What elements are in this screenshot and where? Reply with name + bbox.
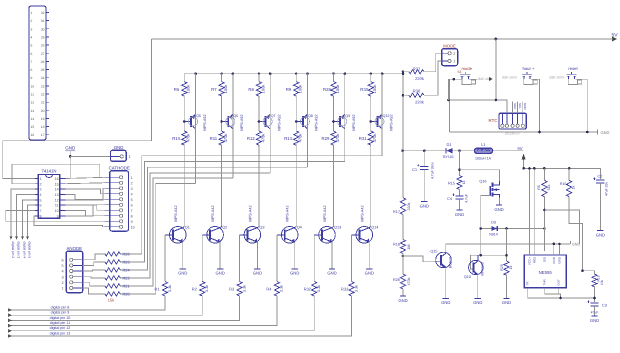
svg-text:100k: 100k <box>372 85 377 94</box>
svg-text:GND: GND <box>601 130 610 135</box>
wire 555 bottom stubs <box>545 288 561 298</box>
resistor R25 <box>506 229 508 262</box>
pin 6 J1 <box>46 52 49 54</box>
svg-text:R4: R4 <box>266 287 272 292</box>
svg-text:BY101: BY101 <box>443 155 454 159</box>
svg-text:R29: R29 <box>322 136 330 141</box>
wire base col2 <box>201 235 203 282</box>
node CATHODE pin 3 <box>105 187 120 189</box>
pin 9 74141 <box>60 215 66 217</box>
ground symbol Q15 <box>443 297 449 299</box>
node RTC pin 5 <box>521 124 524 127</box>
wire base col5 <box>313 235 315 282</box>
svg-text:24: 24 <box>41 76 45 80</box>
svg-text:23: 23 <box>41 84 45 88</box>
resistor R19 10k <box>583 271 595 274</box>
wire base resistor to bus line 1 <box>11 296 165 310</box>
svg-text:12: 12 <box>31 101 35 105</box>
ground symbol <box>366 268 372 270</box>
svg-text:Q4: Q4 <box>297 226 302 230</box>
svg-text:digital pin 12: digital pin 12 <box>50 326 71 330</box>
wire base chain col6 <box>370 96 372 131</box>
svg-text:MPS-A42: MPS-A42 <box>174 205 178 221</box>
wire R5 route to 555 <box>543 197 545 251</box>
resistor R29 470k <box>331 131 336 145</box>
svg-text:2: 2 <box>453 52 455 56</box>
svg-text:100k: 100k <box>335 85 340 94</box>
resistor R23 15k <box>105 260 120 264</box>
svg-text:Q14: Q14 <box>371 226 378 230</box>
svg-text:SDA: SDA <box>513 103 517 109</box>
svg-text:R16: R16 <box>560 182 567 186</box>
svg-text:4.7uF 350v: 4.7uF 350v <box>431 162 435 179</box>
svg-text:SCL: SCL <box>518 103 522 109</box>
node rail junction col4 <box>295 73 297 75</box>
svg-text:B3F-10XX: B3F-10XX <box>550 76 566 80</box>
wire Q15 emitter to gnd <box>445 267 447 298</box>
node digital pin 13 bus terminal <box>8 334 12 337</box>
wire 74141 p12 to cathode3 <box>65 188 104 200</box>
svg-text:4.7uF: 4.7uF <box>464 194 468 203</box>
pin 14 J1 <box>46 118 49 120</box>
node digital pin 8 bus terminal <box>8 308 12 311</box>
wire PNP emitter-collector column col1 <box>195 74 197 184</box>
svg-text:4: 4 <box>31 36 33 40</box>
svg-text:R23: R23 <box>123 259 130 264</box>
svg-text:R18: R18 <box>393 242 400 246</box>
svg-text:5: 5 <box>31 44 33 48</box>
wire R16 route <box>569 197 582 271</box>
wire MODE pin2 to R27 <box>424 53 442 71</box>
wire anode pin 3 to resistor <box>83 277 105 278</box>
svg-text:100k: 100k <box>260 85 265 94</box>
wire base resistor to bus line 5 <box>11 296 314 331</box>
transistor Q2 MPS-A42 <box>207 227 224 244</box>
svg-text:220k: 220k <box>415 99 424 104</box>
svg-text:32: 32 <box>41 11 45 15</box>
svg-text:R24: R24 <box>123 267 131 272</box>
svg-text:100k: 100k <box>298 85 303 94</box>
svg-text:GND: GND <box>420 203 429 208</box>
ground symbol C1 <box>421 201 427 203</box>
switch S3 reset <box>568 76 574 79</box>
svg-text:GND: GND <box>65 146 76 151</box>
pin 3 J1 <box>46 28 49 30</box>
diode D1 BY101 <box>445 148 447 153</box>
wire base chain col5 <box>333 96 335 131</box>
node RTC pin 1 <box>501 124 504 127</box>
resistor R4 3.3k <box>274 282 279 297</box>
svg-text:2: 2 <box>62 281 64 285</box>
svg-text:CON: CON <box>552 257 556 264</box>
svg-text:6: 6 <box>131 203 133 207</box>
wire 74141 p10 to cathode8 <box>65 210 104 215</box>
pin 15 J1 <box>46 126 49 128</box>
svg-text:MPS-A92: MPS-A92 <box>203 114 207 130</box>
wire anode line col1 <box>120 183 195 294</box>
resistor R33 3.3k <box>349 282 354 297</box>
resistor R8 100k <box>258 74 260 82</box>
svg-text:470k: 470k <box>260 134 265 143</box>
pin 9 J1 <box>46 77 49 79</box>
svg-text:Q10: Q10 <box>464 275 471 279</box>
svg-text:R5: R5 <box>537 185 541 190</box>
svg-text:R9: R9 <box>286 87 292 92</box>
wire base chain col4 <box>295 96 297 131</box>
svg-text:8: 8 <box>31 68 33 72</box>
svg-text:3: 3 <box>131 187 133 191</box>
resistor R9 100k <box>295 74 297 82</box>
svg-text:R36: R36 <box>413 89 421 94</box>
connector MODE <box>442 49 458 66</box>
svg-text:MPS-A42: MPS-A42 <box>360 205 364 221</box>
wire emitter to gnd col2 <box>219 242 221 268</box>
node ANODE pin 5 <box>70 264 73 267</box>
wire RTC pin stubs <box>512 102 514 114</box>
wire S3 right drop <box>576 79 588 132</box>
node MODE pin 1 <box>442 60 448 62</box>
ground symbol R25 <box>503 297 509 299</box>
transistor Q9 MPS-A92 <box>332 120 335 123</box>
wire anode line col3 <box>120 173 270 278</box>
svg-text:GND: GND <box>215 271 224 276</box>
pin 5 J1 <box>46 44 49 46</box>
svg-text:NE555: NE555 <box>539 270 553 275</box>
node CATHODE pin 1 <box>105 176 120 178</box>
svg-text:ANODE: ANODE <box>66 246 82 251</box>
wire digital pin 4 stub <box>23 200 36 239</box>
ground symbol C3 <box>591 315 597 317</box>
wire digital pin 5 stub <box>28 205 36 238</box>
wire 470k to Q5 collector <box>333 145 335 226</box>
svg-text:GND: GND <box>523 103 527 111</box>
svg-text:15: 15 <box>55 182 59 186</box>
svg-text:R3: R3 <box>229 287 235 292</box>
svg-text:3.3k: 3.3k <box>280 285 284 292</box>
svg-text:GND: GND <box>502 300 511 305</box>
svg-text:10: 10 <box>55 209 59 213</box>
wire base chain col2 <box>221 96 223 131</box>
switch S2 hour <box>524 76 530 79</box>
resistor R6 100k <box>183 74 185 82</box>
svg-text:C3: C3 <box>602 304 607 308</box>
svg-text:26: 26 <box>41 60 45 64</box>
svg-text:Q16: Q16 <box>479 180 486 184</box>
svg-text:9: 9 <box>57 215 59 219</box>
wire 470k to Q2 collector <box>221 145 223 226</box>
svg-text:470k: 470k <box>223 134 228 143</box>
svg-text:1k: 1k <box>572 185 576 189</box>
node RTC pin 2 <box>505 124 508 127</box>
svg-text:digital pin 2: digital pin 2 <box>11 242 15 259</box>
node rail junction col1 <box>194 72 197 75</box>
ground symbol <box>254 268 260 270</box>
svg-text:R20: R20 <box>123 291 131 296</box>
wire anode line col5 <box>120 162 345 262</box>
wire 74141 p11 to cathode7 <box>65 205 104 210</box>
pin 8 74141 <box>35 215 38 217</box>
svg-text:8: 8 <box>40 215 42 219</box>
svg-text:R15: R15 <box>448 182 455 186</box>
resistor R26 15k <box>105 252 120 256</box>
svg-text:MPS-A42: MPS-A42 <box>248 205 252 221</box>
svg-text:1: 1 <box>453 60 455 64</box>
svg-text:14: 14 <box>55 188 59 192</box>
wire PNP emitter-collector column col6 <box>381 74 383 156</box>
ground symbol <box>292 268 298 270</box>
node digital pin 9 bus terminal <box>8 314 12 317</box>
svg-text:5: 5 <box>40 199 42 203</box>
svg-text:Q8: Q8 <box>308 114 313 118</box>
svg-text:10k: 10k <box>600 279 604 285</box>
svg-text:BC547: BC547 <box>449 257 453 268</box>
ground symbol C4 <box>456 209 462 211</box>
svg-text:Q2: Q2 <box>222 226 227 230</box>
svg-text:R7: R7 <box>211 87 217 92</box>
svg-text:MPS-A92: MPS-A92 <box>277 114 281 130</box>
svg-text:25: 25 <box>41 68 45 72</box>
svg-text:3: 3 <box>31 27 33 31</box>
svg-text:27: 27 <box>41 52 45 56</box>
transistor Q15 BC547 <box>436 252 452 268</box>
wire 74141 pin8 under-route to cathode 10 <box>34 216 105 227</box>
svg-text:3.3k: 3.3k <box>317 285 321 292</box>
wire 470k to Q6 collector <box>370 145 372 226</box>
wire anode pin 4 to resistor <box>83 270 105 271</box>
node CATHODE pin 6 <box>105 204 120 206</box>
svg-text:13: 13 <box>31 109 35 113</box>
svg-text:4: 4 <box>40 193 42 197</box>
svg-text:MPS-A92: MPS-A92 <box>315 114 319 130</box>
node GND bracket label <box>570 241 572 244</box>
svg-text:R32: R32 <box>304 287 312 292</box>
wire HV divider chain <box>402 151 404 198</box>
svg-text:R31: R31 <box>359 136 367 141</box>
wire 74141 p14 to cathode4 <box>65 189 104 194</box>
wire S2 right drop <box>531 79 539 132</box>
svg-text:220k: 220k <box>415 76 424 81</box>
resistor R28 100k <box>333 74 335 82</box>
node digital pin 10 bus terminal <box>8 319 12 322</box>
svg-text:GND: GND <box>596 232 605 237</box>
svg-text:MPS-A42: MPS-A42 <box>211 205 215 221</box>
node rail junction col6 <box>370 73 372 75</box>
wire digital pin 2 stub <box>11 189 35 239</box>
svg-text:MPS-A92: MPS-A92 <box>352 114 356 130</box>
svg-text:16: 16 <box>55 177 59 181</box>
wire base resistor to bus line 6 <box>11 296 352 336</box>
svg-text:47uF 25v: 47uF 25v <box>605 182 609 196</box>
svg-text:Q7: Q7 <box>271 114 276 118</box>
resistor R31 470k <box>368 131 373 145</box>
capacitor C4 <box>459 190 461 196</box>
resistor R21 15k <box>105 284 120 288</box>
wire 470k to Q1 collector <box>183 145 185 226</box>
svg-text:R11: R11 <box>210 136 218 141</box>
svg-text:hour +: hour + <box>523 66 536 71</box>
svg-text:2: 2 <box>131 181 133 185</box>
svg-text:2: 2 <box>40 182 42 186</box>
node CATHODE pin 8 <box>105 215 120 217</box>
pin 14 74141 <box>60 188 66 190</box>
svg-text:MPS-A42: MPS-A42 <box>286 205 290 221</box>
node MODE pin 2 <box>442 52 448 54</box>
capacitor C3 47uF <box>590 302 598 304</box>
wire emitter to gnd col4 <box>294 242 296 268</box>
ground symbol button rail <box>597 130 599 135</box>
resistor R18 1M <box>400 240 405 254</box>
svg-text:GND: GND <box>114 145 124 150</box>
svg-text:100k: 100k <box>186 85 191 94</box>
transistor Q6 MPS-A92 <box>220 120 223 123</box>
transistor Q16 MOSFET <box>492 183 494 197</box>
svg-text:17: 17 <box>41 133 45 137</box>
wire HV output line <box>403 150 524 152</box>
svg-text:R6: R6 <box>174 87 180 92</box>
svg-text:GND: GND <box>398 298 407 303</box>
svg-text:10: 10 <box>31 84 35 88</box>
svg-text:R12: R12 <box>247 136 255 141</box>
pin 4 74141 <box>35 193 38 195</box>
pin 16 74141 <box>60 178 66 180</box>
svg-text:R33: R33 <box>341 287 349 292</box>
svg-text:C2: C2 <box>598 175 603 179</box>
pin 6 74141 <box>35 204 38 206</box>
pin 1 J1 <box>46 12 49 14</box>
transistor Q13 MPS-A42 <box>319 227 336 244</box>
svg-text:3.3k: 3.3k <box>242 285 246 292</box>
svg-text:D3: D3 <box>491 221 496 225</box>
wire base resistor to bus line 4 <box>11 296 277 326</box>
svg-text:N914: N914 <box>489 233 498 237</box>
wire anode pin 2 to resistor <box>83 282 105 286</box>
wire S1 left <box>449 78 462 80</box>
resistor R12 470k <box>256 131 261 145</box>
pin 16 J1 <box>46 134 49 136</box>
svg-text:R26: R26 <box>123 251 130 256</box>
resistor R5 <box>543 167 546 170</box>
svg-text:10: 10 <box>131 225 135 229</box>
svg-text:DS1307Z+: DS1307Z+ <box>505 132 520 136</box>
wire anode line col6 <box>120 156 382 254</box>
svg-text:5: 5 <box>62 264 64 268</box>
svg-text:31: 31 <box>41 19 45 23</box>
svg-text:C4: C4 <box>447 197 452 201</box>
node ANODE pin 1 <box>70 286 73 289</box>
wire 74141 p15 to cathode2 <box>65 182 104 185</box>
svg-text:1: 1 <box>31 11 33 15</box>
svg-text:reset: reset <box>568 66 578 71</box>
transistor Q14 MPS-A42 <box>356 227 373 244</box>
node ANODE pin 6 <box>70 258 73 261</box>
wire base chain col3 <box>258 96 260 131</box>
wire PNP emitter-collector column col2 <box>232 74 234 178</box>
wire emitter to gnd col1 <box>182 242 184 268</box>
node ANODE pin 4 <box>70 269 73 272</box>
svg-text:digital pin 13: digital pin 13 <box>50 331 71 335</box>
svg-text:Q15: Q15 <box>430 250 437 254</box>
svg-text:1k: 1k <box>509 265 513 269</box>
svg-text:MPS-A42: MPS-A42 <box>323 205 327 221</box>
wire gate drive node <box>471 254 507 256</box>
wire base resistor to bus line 2 <box>11 296 202 315</box>
IC U1 74141N body <box>38 175 60 219</box>
svg-text:3.3k: 3.3k <box>168 285 172 292</box>
svg-text:GND: GND <box>253 271 262 276</box>
capacitor C2 470uF 25v <box>596 179 604 181</box>
wire 555 res stub <box>533 168 535 255</box>
svg-text:GND: GND <box>590 318 599 323</box>
wire base col6 <box>351 235 353 282</box>
svg-text:12: 12 <box>55 199 59 203</box>
transistor Q4 MPS-A42 <box>281 227 298 244</box>
svg-text:6: 6 <box>40 204 42 208</box>
svg-text:RES: RES <box>532 257 536 263</box>
connector GND <box>70 155 110 157</box>
resistor R2 3.3k <box>200 282 205 297</box>
wire Q16 gate <box>481 195 491 197</box>
pin 13 J1 <box>46 109 49 111</box>
svg-text:R13: R13 <box>284 136 292 141</box>
resistor R26 470k <box>400 274 405 289</box>
svg-text:digital pin 5: digital pin 5 <box>28 242 32 259</box>
diode D3 N914 <box>481 228 545 230</box>
resistor R7 100k <box>221 74 223 82</box>
svg-text:15: 15 <box>31 125 35 129</box>
wire RTC vcc feed <box>448 100 507 113</box>
pin 10 74141 <box>60 209 66 211</box>
svg-text:470k: 470k <box>186 134 191 143</box>
svg-text:CATHODE: CATHODE <box>109 166 130 171</box>
svg-text:13: 13 <box>55 193 59 197</box>
svg-text:19: 19 <box>41 117 45 121</box>
svg-text:9: 9 <box>31 76 33 80</box>
svg-text:74141N: 74141N <box>41 168 56 173</box>
wire 555 gnd stub <box>558 244 560 255</box>
svg-text:100k: 100k <box>223 85 228 94</box>
svg-text:100uH 1A: 100uH 1A <box>475 157 492 161</box>
transistor Q7 MPS-A92 <box>258 120 261 123</box>
svg-text:digital pin 11: digital pin 11 <box>50 321 70 325</box>
svg-text:S1: S1 <box>457 70 461 74</box>
svg-text:29: 29 <box>41 36 45 40</box>
node ANODE pin 2 <box>70 281 73 284</box>
wire anode line col2 <box>120 178 233 286</box>
svg-text:L1: L1 <box>481 142 486 147</box>
IC NE555 <box>524 255 566 288</box>
node digital pin 12 bus terminal <box>8 329 12 332</box>
svg-text:1: 1 <box>131 176 133 180</box>
svg-text:7: 7 <box>31 60 33 64</box>
svg-text:R17: R17 <box>393 210 400 214</box>
pin 3 74141 <box>35 188 38 190</box>
svg-text:digital pin 4: digital pin 4 <box>23 242 27 259</box>
pin 8 J1 <box>46 69 49 71</box>
svg-text:3: 3 <box>40 188 42 192</box>
svg-text:OUT: OUT <box>556 279 560 286</box>
pin 7 74141 <box>35 209 38 211</box>
pin 10 J1 <box>46 85 49 87</box>
resistor R17 220k <box>400 198 405 215</box>
wire HV rail to R27 R36 junction <box>402 74 404 151</box>
wire button ground rail <box>449 131 597 133</box>
transistor Q3 MPS-A42 <box>244 227 261 244</box>
svg-text:22: 22 <box>41 93 45 97</box>
resistor R11 470k <box>219 131 224 145</box>
svg-text:3: 3 <box>62 275 64 279</box>
svg-text:R28: R28 <box>323 87 331 92</box>
svg-text:220k: 220k <box>407 202 411 210</box>
